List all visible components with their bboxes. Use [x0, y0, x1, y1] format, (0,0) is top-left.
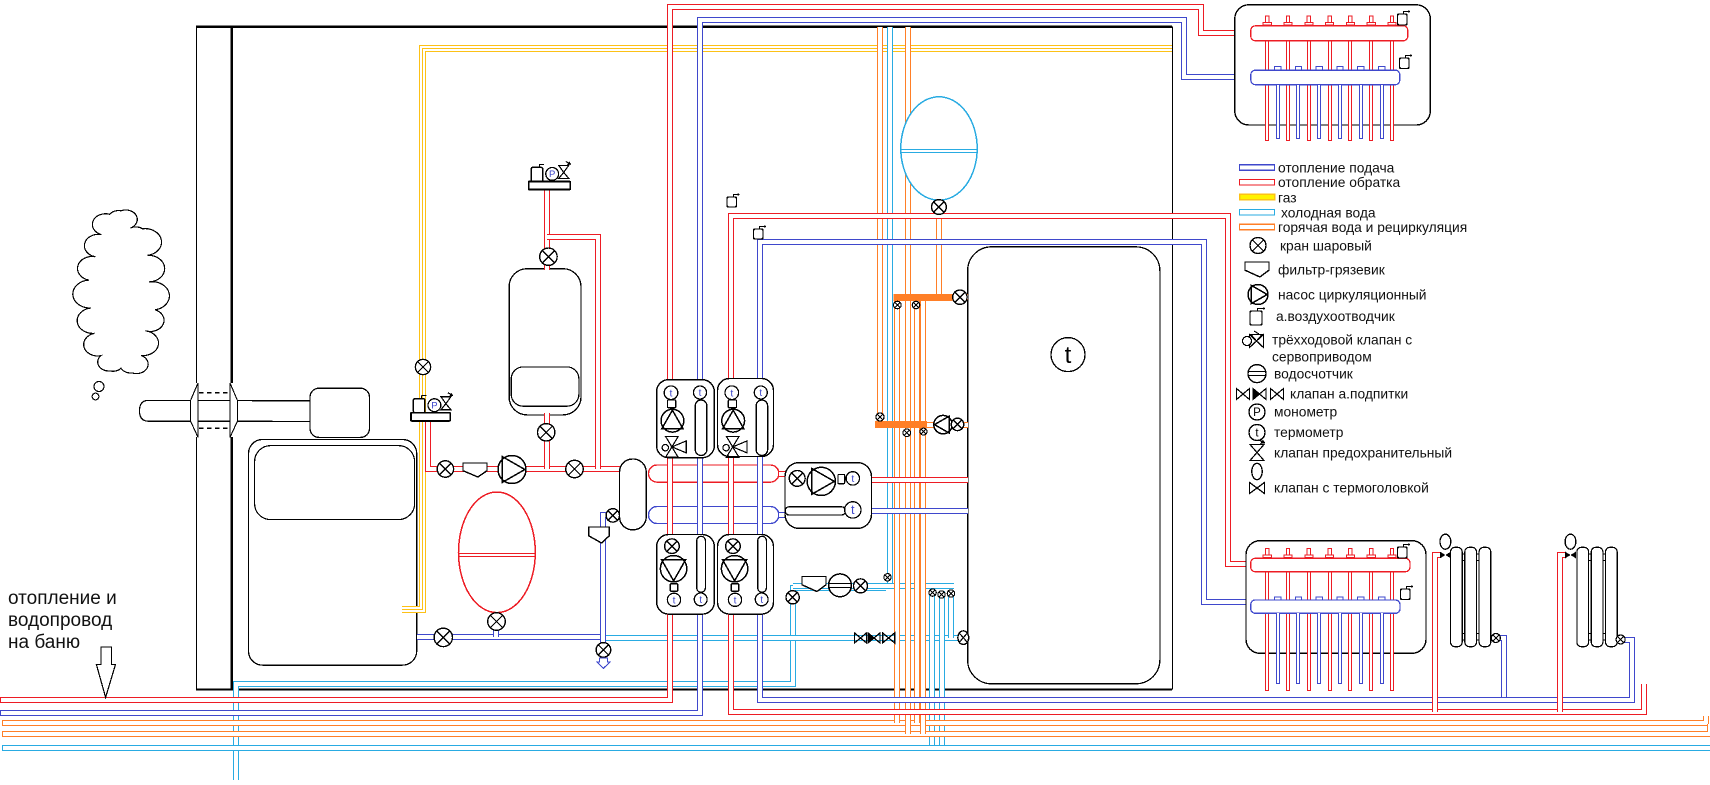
svg-text:t: t	[730, 387, 733, 399]
svg-text:кран шаровый: кран шаровый	[1280, 239, 1372, 254]
svg-text:монометр: монометр	[1274, 404, 1337, 419]
svg-text:водосчотчик: водосчотчик	[1274, 367, 1354, 382]
svg-text:горячая вода и рециркуляция: горячая вода и рециркуляция	[1278, 220, 1467, 235]
svg-text:t: t	[851, 502, 855, 517]
svg-text:холодная вода: холодная вода	[1281, 205, 1376, 220]
svg-text:t: t	[699, 595, 702, 606]
svg-text:t: t	[734, 595, 737, 606]
svg-text:t: t	[851, 474, 854, 485]
svg-text:насос циркуляционный: насос циркуляционный	[1278, 288, 1427, 303]
svg-text:фильтр-грязевик: фильтр-грязевик	[1278, 263, 1386, 278]
svg-text:t: t	[759, 388, 762, 399]
svg-text:сервоприводом: сервоприводом	[1272, 349, 1372, 364]
svg-text:термометр: термометр	[1274, 425, 1344, 440]
svg-text:P: P	[431, 400, 437, 411]
svg-text:водопровод: водопровод	[8, 610, 112, 631]
svg-text:клапан а.подпитки: клапан а.подпитки	[1290, 386, 1408, 401]
svg-text:t: t	[1065, 342, 1072, 369]
svg-text:отопление и: отопление и	[8, 588, 117, 609]
svg-text:газ: газ	[1278, 190, 1297, 205]
svg-text:t: t	[760, 595, 763, 606]
svg-text:t: t	[673, 595, 676, 606]
svg-text:трёхходовой клапан с: трёхходовой клапан с	[1272, 333, 1412, 348]
svg-text:а.воздухоотводчик: а.воздухоотводчик	[1276, 309, 1396, 324]
svg-text:P: P	[549, 169, 555, 180]
svg-text:P: P	[1253, 407, 1261, 419]
svg-text:отопление обратка: отопление обратка	[1278, 175, 1401, 190]
svg-text:клапан с термоголовкой: клапан с термоголовкой	[1274, 481, 1429, 496]
svg-text:клапан предохранительный: клапан предохранительный	[1274, 446, 1452, 461]
svg-text:t: t	[670, 387, 673, 399]
svg-text:на баню: на баню	[8, 632, 80, 653]
svg-text:t: t	[699, 388, 702, 399]
svg-text:отопление подача: отопление подача	[1278, 161, 1395, 176]
